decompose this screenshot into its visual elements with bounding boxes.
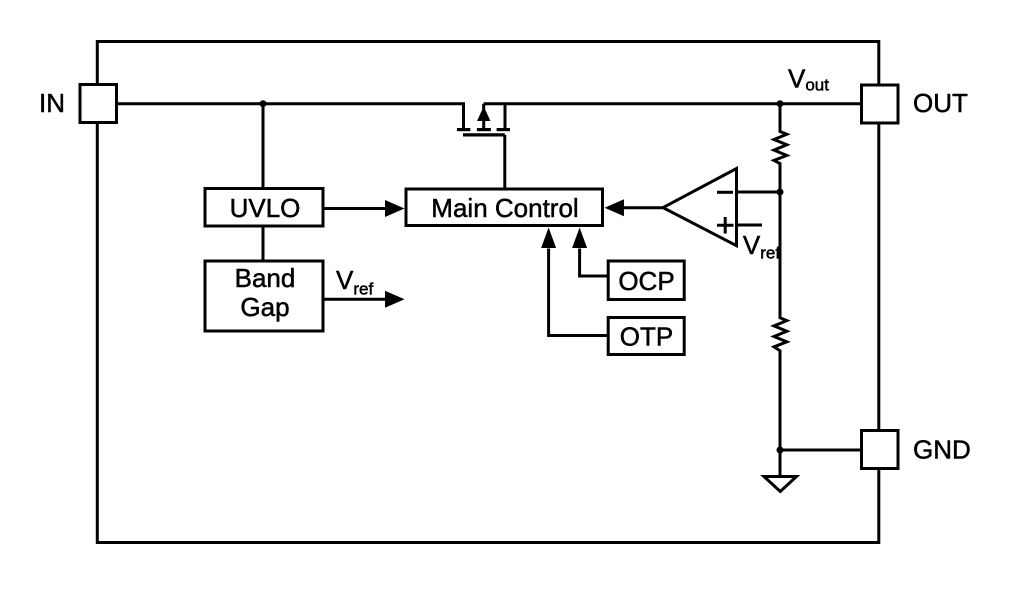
svg-text:Vref: Vref <box>743 230 780 263</box>
block OCP <box>608 261 684 300</box>
node ground junction <box>777 447 784 454</box>
svg-text:Gap: Gap <box>240 292 289 322</box>
block Band Gap <box>205 261 323 331</box>
wire junction to UVLO <box>262 104 265 189</box>
pad GND <box>862 431 899 469</box>
wire op-amp noninverting input to Vref <box>737 224 763 227</box>
svg-text:OTP: OTP <box>620 322 673 352</box>
svg-text:Band: Band <box>235 263 296 293</box>
transistor Q1 pass PMOS: source/body/drain contact bars <box>457 130 510 135</box>
wire IN rail (input to pass FET drain) <box>117 104 464 129</box>
node feedback junction <box>777 189 784 196</box>
arrowhead Vref output <box>385 291 405 308</box>
pad IN <box>80 85 117 123</box>
arrowhead UVLO to Main Control <box>385 200 405 217</box>
op-amp plus sign <box>717 217 734 234</box>
svg-text:UVLO: UVLO <box>230 193 301 223</box>
op-amp minus sign <box>717 191 733 194</box>
wire UVLO to Main Control <box>323 207 386 210</box>
transistor Q1 body arrow stem <box>482 104 485 129</box>
op-amp U2 error amplifier triangle <box>663 169 737 246</box>
transistor Q1 gate bar <box>463 133 505 136</box>
svg-text:Main Control: Main Control <box>431 193 578 223</box>
svg-text:OUT: OUT <box>913 88 968 118</box>
node IN-UVLO junction <box>260 100 267 107</box>
svg-text:OCP: OCP <box>618 266 674 296</box>
arrowhead OTP into Main Control <box>541 228 556 249</box>
wire UVLO to Band Gap <box>262 226 265 261</box>
block OTP <box>608 318 684 355</box>
wire ground junction to GND pad <box>780 449 862 452</box>
wire stub to ground symbol <box>779 450 782 477</box>
wire Vref output from Band Gap <box>323 298 386 301</box>
pad OUT <box>862 85 899 123</box>
wire Q1 gate to Main Control <box>503 135 506 189</box>
resistor R2 lower feedback <box>774 192 787 450</box>
svg-text:IN: IN <box>39 88 65 118</box>
arrowhead OCP into Main Control <box>572 228 587 249</box>
svg-text:Vref: Vref <box>336 265 373 299</box>
block Main Control U1 <box>406 189 603 226</box>
wire OTP to Main Control <box>549 249 609 336</box>
ground symbol <box>764 477 797 492</box>
wire feedback node to op-amp inverting input <box>737 191 781 194</box>
IC boundary <box>97 42 879 543</box>
resistor R1 upper feedback <box>774 104 787 192</box>
svg-text:GND: GND <box>913 435 971 465</box>
wire OCP to Main Control <box>580 249 609 277</box>
arrowhead Q1 body arrow <box>477 107 491 122</box>
svg-text:Vout: Vout <box>788 64 829 95</box>
arrowhead op-amp output into Main Control <box>605 199 625 216</box>
transistor Q1 right terminal <box>504 104 507 129</box>
wire op-amp output to Main Control <box>624 206 664 209</box>
node Vout junction <box>777 100 784 107</box>
block UVLO <box>205 189 323 227</box>
wire pass FET source to OUT <box>484 102 862 105</box>
